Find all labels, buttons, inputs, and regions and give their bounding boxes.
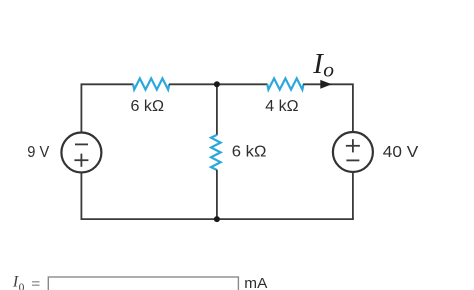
wire middle branch bottom (R3 down to node B) [216, 170, 218, 219]
voltage source V1 9V (left) [61, 133, 101, 173]
svg-text:mA: mA [244, 275, 267, 290]
answer label I0 = [12, 273, 40, 290]
node A (top junction dot) [214, 81, 220, 87]
svg-text:=: = [31, 276, 40, 290]
voltage source V2 40V (right) [333, 132, 373, 172]
answer input box [48, 277, 238, 290]
current arrow Io [320, 80, 332, 89]
svg-text:o: o [323, 57, 334, 81]
wire middle branch top (node A down to R3) [216, 84, 218, 135]
wire bottom (bottom-left corner to bottom-right corner through node B) [81, 218, 354, 220]
wire left branch top (source top to top-left corner to R1) [81, 84, 133, 133]
svg-text:6 kΩ: 6 kΩ [131, 98, 165, 115]
wire right branch bottom (source V2 bottom to bottom-right corner) [352, 171, 354, 220]
resistor R2 4k ohm (top-right, horizontal) [267, 78, 303, 89]
svg-text:0: 0 [19, 282, 25, 290]
svg-text:40 V: 40 V [383, 144, 419, 161]
label current Io [312, 48, 334, 81]
resistor R3 6k ohm (middle, vertical) [211, 135, 221, 170]
wire left branch bottom (source V1 bottom to bottom-left corner) [80, 172, 82, 220]
svg-text:9 V: 9 V [27, 144, 49, 161]
resistor R1 6k ohm (top-left, horizontal) [133, 78, 169, 89]
wire top-right (R2 to corner, down to source V2 top) [303, 84, 353, 133]
svg-text:4 kΩ: 4 kΩ [265, 98, 298, 115]
svg-text:6 kΩ: 6 kΩ [232, 144, 267, 161]
wire top middle (R1 to node A to R2) [169, 83, 268, 85]
node B (bottom junction dot) [214, 216, 220, 222]
